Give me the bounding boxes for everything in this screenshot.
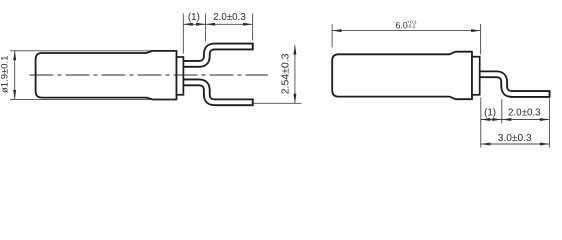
svg-text:2.0±0.3: 2.0±0.3 [213, 12, 246, 23]
svg-text:(1): (1) [484, 107, 496, 118]
svg-text:2.0±0.3: 2.0±0.3 [508, 107, 541, 118]
svg-text:ø1.9±0.1: ø1.9±0.1 [0, 56, 11, 93]
svg-text:3.0±0.3: 3.0±0.3 [498, 133, 532, 144]
svg-text:(1): (1) [188, 12, 200, 23]
svg-text:-0.2: -0.2 [407, 23, 416, 29]
svg-text:2.54±0.3: 2.54±0.3 [279, 53, 291, 94]
svg-text:6.0: 6.0 [395, 21, 407, 31]
